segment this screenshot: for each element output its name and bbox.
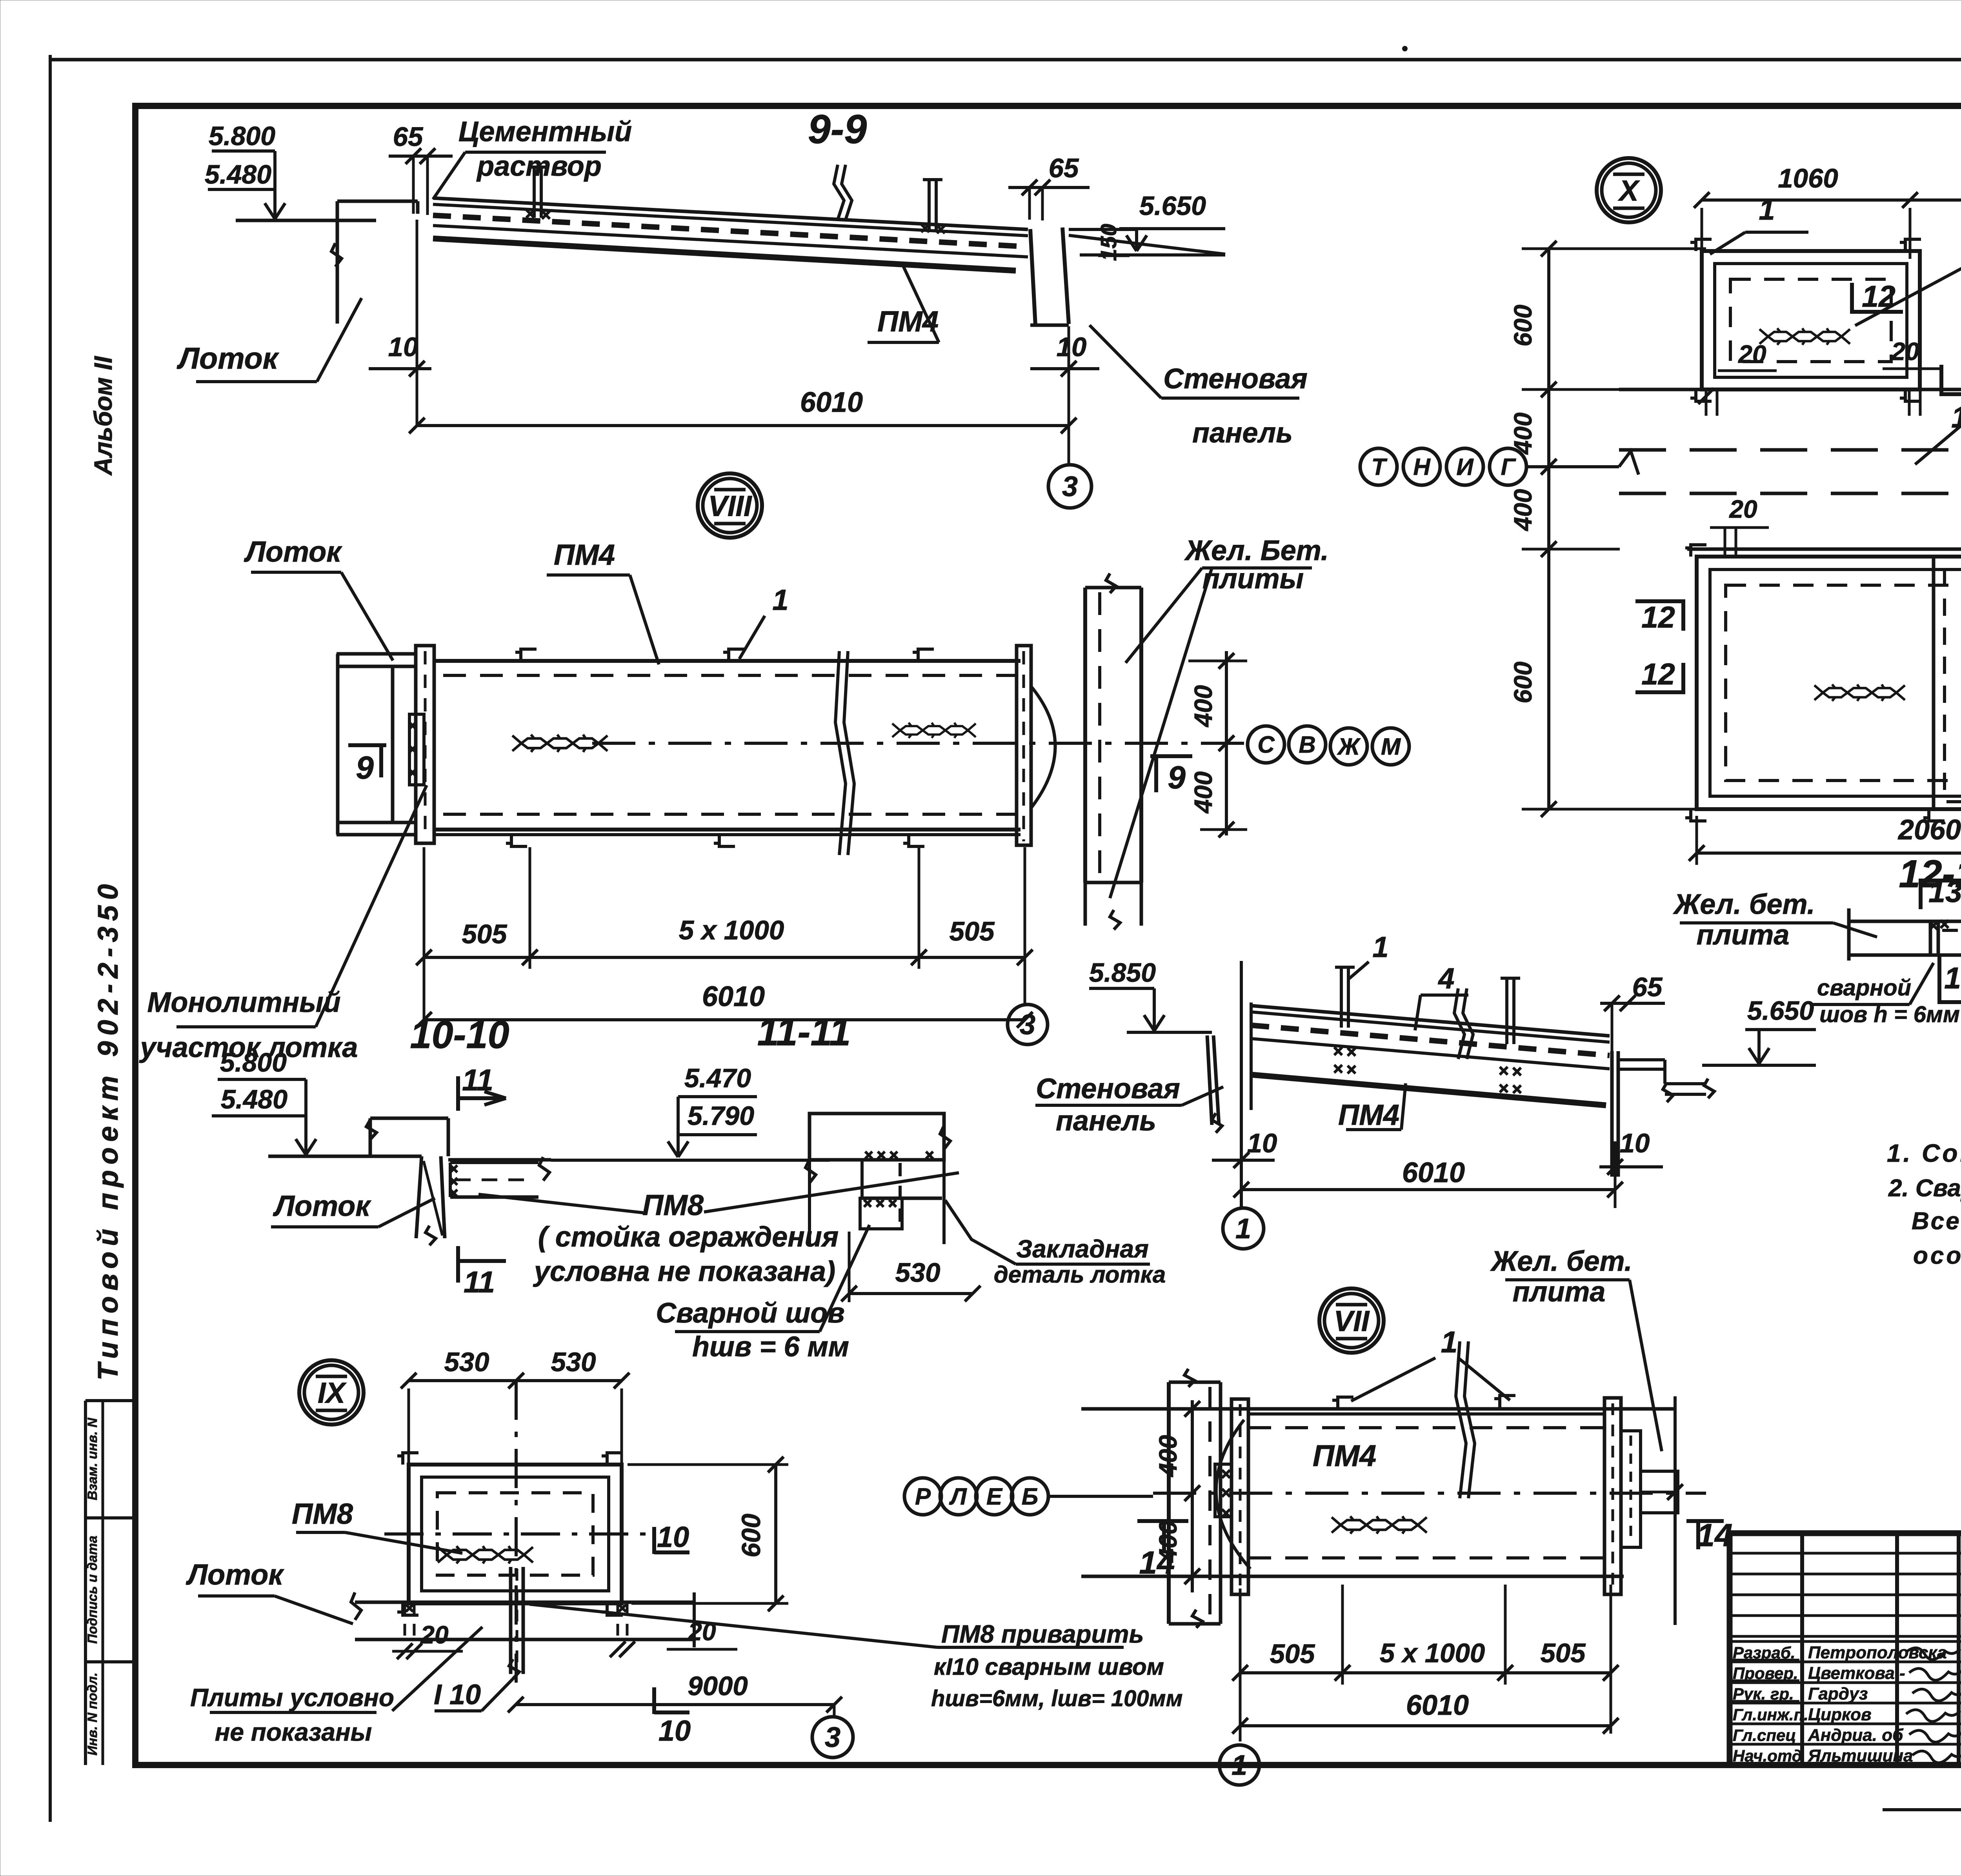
break mark (14-14): [1454, 988, 1464, 1059]
left end (14-14): [1250, 1003, 1253, 1110]
connecting slab line (10-10 to 11-11): [551, 1159, 830, 1162]
outer border top line: [50, 58, 1961, 62]
svg-text:Жел. Бет.: Жел. Бет.: [1184, 535, 1329, 566]
dashed inner lines (VIII): [443, 674, 1017, 677]
svg-text:Н: Н: [1413, 454, 1431, 480]
pier dashes left (IX): [404, 1603, 406, 1639]
section mark 13 lower (12-12): [1937, 955, 1941, 1004]
bolt 2 (14-14): [1505, 980, 1508, 1044]
axis circles С В Ж1 М (VIII): [1248, 726, 1284, 763]
axis circle 1 (14-14): [1223, 1208, 1264, 1249]
svg-text:VII: VII: [1334, 1305, 1370, 1337]
svg-text:400: 400: [1509, 413, 1537, 455]
slab 12-12: [1849, 920, 1961, 923]
svg-text:5.480: 5.480: [221, 1084, 287, 1114]
lotok wall left (9-9): [336, 201, 339, 324]
end plate right (VIII): [1017, 646, 1031, 845]
svg-text:505: 505: [462, 919, 508, 949]
svg-text:600: 600: [737, 1514, 766, 1558]
svg-text:505: 505: [1270, 1639, 1315, 1669]
corner clips top rect (X): [1690, 239, 1712, 251]
svg-text:условна не показана): условна не показана): [533, 1256, 835, 1287]
svg-text:X: X: [1617, 175, 1640, 207]
section mark 11 upper (10-10): [456, 1076, 460, 1111]
wall column right (VIII): [1083, 588, 1087, 883]
dim 2060 (X): [1697, 852, 1961, 855]
plate ПМ8 section (10-10): [448, 1158, 551, 1162]
detail circle IX: [299, 1360, 364, 1425]
svg-text:65: 65: [393, 122, 424, 152]
svg-text:10: 10: [657, 1521, 689, 1553]
ground line left (9-9): [236, 219, 376, 222]
svg-text:1: 1: [1759, 193, 1775, 226]
dim 600 (IX): [774, 1465, 777, 1603]
svg-text:10: 10: [1247, 1128, 1277, 1158]
section mark 12 upper (X): [1850, 283, 1854, 314]
corner clips bottom rect (X): [1685, 545, 1706, 557]
svg-text:Г: Г: [1501, 454, 1517, 480]
dim 530 530 (IX): [409, 1379, 622, 1382]
dim 9000 (IX): [516, 1703, 834, 1706]
mesh (X top): [1759, 328, 1850, 345]
long bottom line (VII): [1081, 1575, 1624, 1578]
section mark 12 lower (X): [1939, 365, 1943, 396]
svg-text:400: 400: [1154, 1435, 1182, 1478]
svg-text:кI10 сварным швом: кI10 сварным швом: [934, 1654, 1164, 1680]
mesh (IX): [438, 1546, 533, 1563]
break mark (VII): [1456, 1341, 1466, 1498]
slab 11-11: [810, 1114, 944, 1160]
svg-text:В: В: [1299, 731, 1315, 758]
mesh (VII): [1332, 1516, 1427, 1534]
channel lotok left (VIII): [337, 652, 416, 656]
section mark 11 lower (10-10): [456, 1246, 460, 1283]
wall panel right (9-9): [1030, 229, 1035, 325]
weld arc (VII): [1216, 1420, 1250, 1569]
underlines role cells: [1732, 1659, 1799, 1661]
svg-text:VIII: VIII: [708, 490, 752, 522]
svg-text:2. Сварку вести электродами: 2. Сварку вести электродами Э42, ГОСТ946…: [1888, 1175, 1961, 1202]
pier dashes right (IX): [617, 1603, 619, 1639]
svg-text:Все сварные швы hшв = 3мм,: Все сварные швы hшв = 3мм, кроме: [1912, 1208, 1961, 1235]
title block name rows: [1730, 1640, 1961, 1643]
svg-text:1060: 1060: [1778, 163, 1838, 193]
svg-text:Андриа. об: Андриа. об: [1808, 1725, 1904, 1745]
svg-text:5.480: 5.480: [205, 160, 271, 189]
dim 505 5x1000 505 (VIII): [424, 956, 1025, 959]
svg-text:hшв = 6 мм: hшв = 6 мм: [692, 1331, 849, 1363]
svg-text:5.650: 5.650: [1139, 191, 1206, 221]
section mark 14 left (VII): [1137, 1519, 1188, 1523]
svg-text:Петрополовска: Петрополовска: [1808, 1643, 1947, 1662]
svg-text:Плиты условно: Плиты условно: [190, 1683, 394, 1712]
weld plate on channel (VIII): [409, 714, 424, 785]
plan rectangle ПМ4 (VII): [1248, 1426, 1604, 1429]
plan rectangle ПМ9 bottom (X): [1697, 557, 1961, 809]
svg-text:Нач.отд: Нач.отд: [1733, 1747, 1802, 1765]
svg-text:3: 3: [825, 1722, 840, 1753]
svg-text:Цирков: Цирков: [1808, 1705, 1872, 1724]
svg-text:6010: 6010: [800, 387, 863, 418]
axis circles Т Н И1 Г (X): [1360, 448, 1397, 485]
detail circle VIII: [698, 473, 762, 538]
centerline horizontal (IX): [384, 1532, 651, 1536]
svg-text:9-9: 9-9: [808, 107, 867, 152]
svg-text:10: 10: [1620, 1128, 1650, 1158]
svg-text:Л: Л: [949, 1483, 967, 1510]
clips bottom (VIII): [506, 835, 527, 846]
svg-text:панель: панель: [1056, 1105, 1156, 1137]
section mark 12 left-mid (X): [1681, 599, 1685, 631]
svg-text:20: 20: [420, 1621, 448, 1649]
scan speck: [1402, 46, 1408, 51]
dim 6010 (9-9): [417, 424, 1069, 427]
svg-text:10: 10: [659, 1714, 691, 1747]
section mark 9 right (VIII): [1150, 754, 1192, 758]
centerline (VIII): [592, 742, 1247, 745]
svg-text:ПМ8: ПМ8: [292, 1498, 353, 1530]
svg-text:1: 1: [1232, 1750, 1247, 1781]
svg-text:10: 10: [388, 332, 418, 362]
dim 400 400 left (VII): [1191, 1400, 1194, 1592]
plan rectangle ПМ4 (VIII): [434, 659, 1021, 663]
dim 400-400 right (VIII): [1225, 651, 1228, 835]
svg-text:Стеновая: Стеновая: [1036, 1073, 1180, 1104]
svg-text:6010: 6010: [1402, 1157, 1465, 1188]
base slab (IX): [355, 1601, 694, 1604]
end plate right (VII): [1604, 1398, 1621, 1594]
slab right of wall (9-9): [1069, 235, 1225, 254]
long top line (VII): [1081, 1407, 1675, 1411]
svg-text:Цементный: Цементный: [458, 116, 632, 147]
svg-text:5.850: 5.850: [1089, 958, 1156, 988]
svg-text:11-11: 11-11: [757, 1010, 851, 1054]
outer border bottom line: [1883, 1808, 1961, 1811]
svg-text:10: 10: [1057, 332, 1087, 362]
svg-text:530: 530: [895, 1257, 940, 1288]
break mark (VIII): [835, 651, 846, 855]
slab band (X): [1619, 388, 1961, 391]
svg-text:5.470: 5.470: [684, 1063, 751, 1093]
svg-text:М: М: [1381, 733, 1401, 760]
svg-text:6010: 6010: [702, 981, 765, 1012]
svg-text:600: 600: [1509, 305, 1537, 347]
dim 6010 (14-14): [1241, 1188, 1615, 1191]
svg-text:Подпись и дата: Подпись и дата: [85, 1536, 100, 1644]
section mark 9 left (VIII): [348, 743, 386, 747]
svg-text:ПМ8: ПМ8: [642, 1189, 704, 1221]
svg-text:3: 3: [1020, 1009, 1035, 1041]
svg-text:особо оговоренных.: особо оговоренных.: [1913, 1242, 1961, 1269]
svg-text:Альбом II: Альбом II: [89, 356, 117, 476]
svg-text:Ж: Ж: [1337, 733, 1361, 760]
title block left rows upper: [1730, 1552, 1961, 1555]
svg-text:530: 530: [444, 1347, 489, 1377]
break mark (9-9): [834, 165, 844, 220]
svg-text:20: 20: [1738, 340, 1766, 368]
svg-text:IX: IX: [318, 1377, 347, 1409]
top bracket with label 1 (VII): [1332, 1397, 1353, 1409]
svg-text:С: С: [1257, 731, 1275, 758]
svg-text:Жел. бет.: Жел. бет.: [1490, 1246, 1632, 1277]
mesh (X bottom): [1814, 684, 1905, 701]
svg-text:И: И: [1456, 454, 1474, 480]
svg-text:Лоток: Лоток: [244, 535, 342, 568]
signatures: [1906, 1648, 1960, 1659]
svg-text:Жел. бет.: Жел. бет.: [1672, 889, 1815, 920]
svg-text:6010: 6010: [1406, 1690, 1469, 1721]
svg-text:Лоток: Лоток: [176, 342, 279, 375]
svg-text:9: 9: [356, 750, 374, 786]
wall right (14-14): [1610, 1051, 1614, 1177]
svg-text:11: 11: [464, 1265, 495, 1299]
svg-text:ПМ8 приварить: ПМ8 приварить: [941, 1620, 1144, 1648]
title block vertical dividers: [1800, 1533, 1804, 1765]
bolt 1 (14-14): [1340, 969, 1343, 1028]
svg-text:4: 4: [1437, 962, 1454, 995]
svg-text:1: 1: [1235, 1213, 1251, 1245]
plate assembly ПМ4 (9-9): [433, 198, 1028, 229]
detail circle VII: [1319, 1288, 1384, 1353]
svg-text:13: 13: [1928, 875, 1961, 909]
section mark 14 right (VII): [1686, 1519, 1724, 1523]
svg-text:20: 20: [1891, 337, 1919, 366]
dim 530 (11-11): [849, 1292, 973, 1295]
svg-text:3: 3: [1062, 471, 1078, 502]
svg-text:400: 400: [1189, 772, 1217, 814]
svg-text:ПМ4: ПМ4: [1313, 1439, 1376, 1473]
dim 6010 (VII): [1240, 1724, 1611, 1727]
central pier I10 (IX): [509, 1567, 513, 1674]
svg-text:12: 12: [1641, 657, 1675, 691]
svg-text:сварной: сварной: [1817, 975, 1911, 1001]
svg-text:не показаны: не показаны: [215, 1718, 372, 1746]
svg-text:hшв=6мм, lшв= 100мм: hшв=6мм, lшв= 100мм: [931, 1686, 1182, 1711]
outer border left line: [49, 55, 52, 1822]
svg-text:9: 9: [1168, 760, 1186, 795]
section mark 10 lower (IX): [652, 1687, 656, 1714]
svg-text:Закладная: Закладная: [1016, 1235, 1149, 1263]
svg-text:600: 600: [1509, 662, 1537, 704]
svg-text:400: 400: [1189, 685, 1217, 728]
svg-text:Т: Т: [1372, 454, 1388, 480]
svg-text:13: 13: [1944, 961, 1961, 995]
svg-text:( стойка ограждения: ( стойка ограждения: [538, 1221, 839, 1253]
svg-text:5.650: 5.650: [1747, 996, 1814, 1026]
svg-text:530: 530: [551, 1347, 596, 1377]
section mark 10 right (IX): [652, 1527, 656, 1554]
svg-text:Типовой проект 902-2-350: Типовой проект 902-2-350: [93, 879, 124, 1381]
svg-text:Яльтишина: Яльтишина: [1808, 1746, 1913, 1765]
svg-text:400: 400: [1509, 489, 1537, 532]
svg-text:Гардуз: Гардуз: [1808, 1684, 1868, 1703]
svg-text:65: 65: [1049, 153, 1079, 183]
parapet block (10-10): [370, 1117, 448, 1120]
svg-text:ПМ4: ПМ4: [1338, 1099, 1399, 1131]
plate piece (11-11): [862, 1158, 942, 1161]
wall column left (VII): [1167, 1382, 1171, 1624]
svg-text:Взам. инв. N: Взам. инв. N: [85, 1417, 100, 1500]
svg-text:1: 1: [772, 584, 788, 616]
svg-text:Цветкова -: Цветкова -: [1808, 1664, 1905, 1683]
svg-text:5.800: 5.800: [209, 121, 275, 151]
svg-text:10-10: 10-10: [410, 1013, 509, 1056]
weld arc (VIII): [1031, 686, 1055, 808]
svg-text:Гл.спец: Гл.спец: [1733, 1726, 1796, 1744]
sidebar table: [84, 1401, 87, 1765]
wall below (10-10): [416, 1156, 422, 1238]
centerline vertical (IX): [515, 1381, 518, 1683]
lower box (11-11): [860, 1198, 902, 1229]
svg-text:1. Совместно с данным см.: 1. Совместно с данным см. л. КЖ-59: [1887, 1139, 1961, 1167]
ground line (10-10): [268, 1155, 422, 1158]
svg-text:I 10: I 10: [434, 1679, 481, 1710]
dim 6010 (VIII): [424, 1018, 1025, 1021]
axis circle 1 (VII): [1219, 1745, 1259, 1785]
axis circles Р Л1 Е Б (VII): [904, 1478, 941, 1515]
svg-text:5 x 1000: 5 x 1000: [1380, 1638, 1485, 1668]
svg-text:20: 20: [1729, 495, 1757, 523]
detail circle X: [1597, 158, 1661, 222]
bolt 1 (9-9): [533, 169, 536, 218]
svg-text:Сварной шов: Сварной шов: [656, 1297, 845, 1329]
svg-text:1: 1: [1441, 1325, 1458, 1359]
dim column left (X): [1547, 249, 1550, 809]
plan rectangle ПМ8 top (X): [1702, 251, 1920, 389]
svg-text:Р: Р: [915, 1483, 931, 1510]
svg-text:1: 1: [1372, 931, 1388, 963]
plan rectangle ПМ8 (IX): [409, 1465, 622, 1603]
corner clips (IX): [397, 1453, 418, 1465]
svg-text:Инв. N подл.: Инв. N подл.: [85, 1672, 100, 1756]
axis circle 3 (IX): [812, 1717, 853, 1758]
clips top (VIII): [515, 649, 537, 661]
svg-text:9000: 9000: [688, 1671, 748, 1701]
svg-text:12: 12: [1641, 600, 1675, 634]
svg-text:505: 505: [1540, 1638, 1586, 1668]
svg-text:панель: панель: [1192, 417, 1293, 449]
mesh 2 (VIII): [892, 723, 976, 738]
dim 1060 1470 (X): [1702, 198, 1961, 202]
weld plate marks (VII): [1215, 1464, 1232, 1517]
svg-text:Гл.инж.п.: Гл.инж.п.: [1733, 1705, 1808, 1724]
dim 505 5x1000 505 (VII): [1240, 1671, 1611, 1674]
axis circle 3 (VIII): [1008, 1004, 1048, 1044]
svg-text:Е: Е: [986, 1483, 1003, 1510]
svg-text:Стеновая: Стеновая: [1163, 363, 1308, 395]
section mark 13 upper (12-12): [1919, 879, 1923, 909]
end plate left (VIII): [416, 646, 434, 843]
svg-text:14: 14: [1139, 1545, 1175, 1581]
svg-text:5.800: 5.800: [220, 1048, 287, 1077]
svg-text:505: 505: [949, 916, 995, 946]
svg-text:ПМ4: ПМ4: [554, 539, 615, 571]
svg-text:12: 12: [1862, 280, 1896, 313]
mesh 1 (VIII): [512, 735, 608, 752]
svg-text:Лоток: Лоток: [273, 1190, 371, 1222]
title block outline: [1730, 1533, 1961, 1765]
svg-text:Монолитный: Монолитный: [147, 987, 340, 1018]
axis circle 3 (9-9): [1048, 465, 1091, 508]
plate assembly ПМ4 (14-14): [1251, 1006, 1610, 1036]
svg-text:Лоток: Лоток: [186, 1558, 284, 1591]
svg-text:65: 65: [1632, 972, 1663, 1002]
right attachment (VII): [1621, 1431, 1641, 1547]
bolt 2 (9-9): [928, 181, 931, 232]
svg-text:5.790: 5.790: [688, 1101, 754, 1131]
svg-text:Б: Б: [1022, 1483, 1038, 1510]
centerline (VII): [1153, 1492, 1706, 1495]
svg-text:5 x 1000: 5 x 1000: [679, 915, 784, 945]
svg-text:11: 11: [462, 1063, 493, 1097]
end plate left (VII): [1232, 1399, 1248, 1594]
svg-text:2060: 2060: [1897, 814, 1961, 846]
